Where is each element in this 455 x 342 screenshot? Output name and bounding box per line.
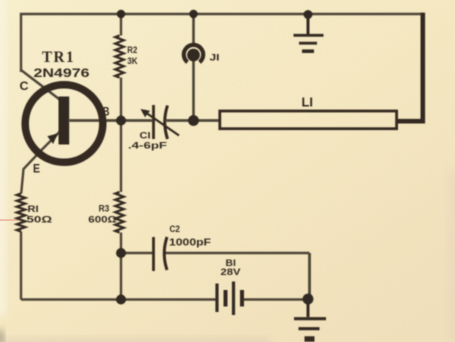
svg-text:B: B <box>103 105 110 119</box>
svg-text:JI: JI <box>210 53 220 64</box>
svg-text:R3: R3 <box>99 204 110 215</box>
svg-text:600Ω: 600Ω <box>88 215 117 226</box>
svg-text:TR1: TR1 <box>42 49 75 66</box>
svg-text:28V: 28V <box>221 267 242 278</box>
svg-text:2N4976: 2N4976 <box>34 66 90 80</box>
svg-text:E: E <box>33 162 40 176</box>
svg-text:C2: C2 <box>170 224 181 234</box>
svg-text:LI: LI <box>302 95 314 110</box>
svg-text:.4-6pF: .4-6pF <box>128 141 167 152</box>
svg-text:3K: 3K <box>127 56 137 67</box>
svg-text:RI: RI <box>28 204 39 215</box>
svg-text:C: C <box>20 79 29 93</box>
svg-text:50Ω: 50Ω <box>27 215 53 226</box>
svg-text:1000pF: 1000pF <box>169 238 211 249</box>
svg-text:R2: R2 <box>127 45 137 56</box>
